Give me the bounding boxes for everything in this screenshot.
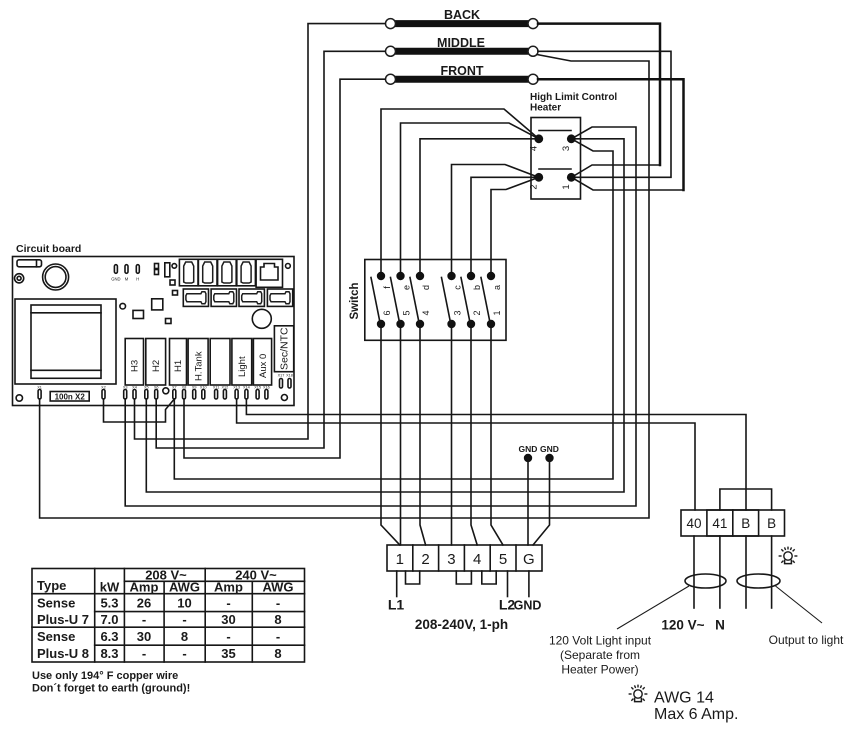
svg-text:2: 2 <box>529 184 540 189</box>
pin X15 <box>254 386 261 400</box>
high limit contact bar 2-1 <box>539 168 571 170</box>
pin X11 <box>213 386 219 400</box>
svg-text:X18: X18 <box>286 374 293 378</box>
test point circle right <box>286 264 291 269</box>
svg-text:26: 26 <box>137 596 151 611</box>
wire MIDDLE right to circuit board X1 <box>40 55 649 519</box>
switch pole d-4 <box>410 272 431 328</box>
high limit pin 4 <box>534 134 543 143</box>
plug connector row <box>183 289 292 306</box>
svg-text:4: 4 <box>529 146 540 151</box>
svg-text:kW: kW <box>100 580 120 595</box>
wire below terminal B2 <box>771 536 773 608</box>
wire L2 lead <box>507 571 509 597</box>
svg-text:M: M <box>125 277 129 282</box>
svg-text:Max 6 Amp.: Max 6 Amp. <box>654 706 738 723</box>
wire BACK right vertical (heavy) <box>538 24 660 165</box>
svg-text:2: 2 <box>421 551 429 568</box>
wire high-limit pin 3 to X3 <box>125 127 636 506</box>
wire below terminal 40 <box>693 536 695 608</box>
svg-text:H3: H3 <box>130 360 141 372</box>
svg-text:4: 4 <box>421 310 431 315</box>
heater MIDDLE right terminal <box>528 46 538 56</box>
high limit pin 1 <box>567 173 576 182</box>
svg-text:B: B <box>767 516 776 531</box>
wire FRONT right to high-limit pin 1 <box>572 177 684 190</box>
Sec/NTC connector <box>274 326 293 372</box>
pin X16 <box>263 386 270 400</box>
svg-text:GND: GND <box>540 444 559 454</box>
svg-text:H1: H1 <box>173 360 184 372</box>
wire GND left to terminal G <box>527 458 529 545</box>
svg-text:X17: X17 <box>278 374 285 378</box>
buzzer <box>43 264 69 290</box>
wire switch 6 to terminal 1 <box>381 324 400 545</box>
jumper terminals 4-5 <box>482 571 496 584</box>
value label 100n X2 <box>50 392 89 402</box>
svg-text:Type: Type <box>37 578 66 593</box>
switch pole b-2 <box>461 272 482 328</box>
svg-text:Light: Light <box>237 356 248 377</box>
pin X7 <box>172 386 177 400</box>
svg-text:H: H <box>136 277 139 282</box>
svg-text:5.3: 5.3 <box>100 596 118 611</box>
pin X14 <box>243 386 250 400</box>
table group divider <box>32 626 305 628</box>
wire below terminal B1 <box>745 536 747 608</box>
svg-text:Output to light: Output to light <box>769 633 844 647</box>
svg-text:-: - <box>182 646 186 661</box>
svg-text:Plus-U 7: Plus-U 7 <box>37 612 89 627</box>
svg-text:GND: GND <box>519 444 538 454</box>
svg-text:35: 35 <box>221 646 235 661</box>
svg-text:1: 1 <box>396 551 404 568</box>
heater FRONT left terminal <box>386 74 396 84</box>
svg-text:Plus-U 8: Plus-U 8 <box>37 646 89 661</box>
wire FRONT right vertical (heavy) <box>538 79 684 190</box>
relay spare <box>210 339 230 386</box>
lamp icon at terminal B <box>779 547 798 564</box>
wire X6 to MIDDLE left <box>156 51 385 448</box>
svg-text:AWG: AWG <box>169 580 200 595</box>
circuit board outline <box>13 257 295 406</box>
terminal block TB1 outline <box>387 545 542 571</box>
heater FRONT right terminal <box>528 74 538 84</box>
svg-text:4: 4 <box>473 551 481 568</box>
relay H2 <box>146 339 166 386</box>
jumper terminals 1-2 <box>406 571 420 584</box>
small part <box>173 291 178 296</box>
pin X8 <box>182 386 187 400</box>
relay H3 <box>125 339 143 386</box>
heater BACK right terminal <box>528 19 538 29</box>
svg-text:Aux 0: Aux 0 <box>258 354 269 378</box>
wire X8 to FRONT left <box>184 79 385 458</box>
svg-text:6.3: 6.3 <box>100 629 118 644</box>
svg-text:-: - <box>276 629 280 644</box>
wire BACK right to high-limit pin 1 <box>572 165 661 177</box>
svg-text:7.0: 7.0 <box>100 612 118 627</box>
svg-text:-: - <box>226 596 230 611</box>
high limit pin 3 <box>567 134 576 143</box>
heater BACK left terminal <box>386 19 396 29</box>
svg-text:-: - <box>276 596 280 611</box>
svg-text:L1: L1 <box>388 597 405 613</box>
switch pole f-6 <box>371 272 392 328</box>
wire switch 1 to terminal 5 <box>491 324 503 545</box>
RJ jack row <box>179 259 255 286</box>
wire switch a to high-limit pin 2 <box>491 177 539 276</box>
svg-text:Circuit board: Circuit board <box>16 243 81 255</box>
svg-text:(Separate from: (Separate from <box>560 648 640 662</box>
wire high-limit pin 3 to X5 <box>146 139 624 492</box>
svg-text:e: e <box>402 285 412 290</box>
mounting hole bottom left <box>16 395 22 401</box>
relay H1 <box>170 339 187 386</box>
switch pole a-1 <box>481 272 502 328</box>
svg-text:Amp: Amp <box>130 580 159 595</box>
wire X13 to terminal 40 <box>237 399 695 510</box>
wire X14 to terminal B <box>246 399 746 510</box>
fuse F1 <box>17 260 42 267</box>
svg-text:B: B <box>741 516 750 531</box>
cable ellipse 120V input <box>685 574 726 588</box>
jumper terminals 41-B2 <box>720 489 772 510</box>
svg-text:H2: H2 <box>151 360 162 372</box>
connector pins GND M H <box>114 265 139 274</box>
wire switch 3 to terminal 3 <box>451 324 453 545</box>
svg-text:6: 6 <box>382 310 392 315</box>
leader line to 120V light input note <box>617 586 689 629</box>
svg-text:1: 1 <box>561 184 572 189</box>
mounting hole mid <box>163 388 169 394</box>
svg-text:8: 8 <box>274 646 281 661</box>
svg-text:-: - <box>142 612 146 627</box>
pin X3 <box>123 386 128 400</box>
wire link X2 to X7 <box>104 399 175 422</box>
svg-text:2: 2 <box>472 310 482 315</box>
leader line to output to light note <box>776 586 823 623</box>
wire below terminal 41 <box>719 536 721 608</box>
small part <box>170 280 175 285</box>
relay coil circle <box>252 309 271 328</box>
svg-text:8: 8 <box>274 612 281 627</box>
svg-text:Use only 194° F copper wire: Use only 194° F copper wire <box>32 670 178 682</box>
svg-text:AWG 14: AWG 14 <box>654 690 714 707</box>
svg-text:8.3: 8.3 <box>100 646 118 661</box>
node GND left dot <box>524 454 532 462</box>
svg-text:H.Tank: H.Tank <box>194 351 205 381</box>
small part <box>166 319 172 324</box>
lamp icon AWG note <box>629 685 648 702</box>
svg-text:GND: GND <box>111 277 120 282</box>
transformer T1 <box>15 299 116 384</box>
wire GND lead <box>528 571 530 597</box>
svg-text:G: G <box>523 551 535 568</box>
wire switch f to high-limit pin 4 <box>381 109 539 276</box>
wire switch 2 to terminal 4 <box>471 324 477 545</box>
pin X13 <box>233 386 240 400</box>
svg-text:a: a <box>492 285 502 290</box>
IC U3 <box>152 299 163 310</box>
svg-text:b: b <box>472 285 482 290</box>
terminal block TB2 outline <box>681 510 785 536</box>
svg-text:-: - <box>226 629 230 644</box>
pin X9 <box>192 386 197 400</box>
wire switch e to high-limit pin 4 <box>401 123 539 276</box>
svg-text:BACK: BACK <box>444 8 480 22</box>
relay Light <box>232 339 252 386</box>
svg-text:41: 41 <box>712 516 727 531</box>
svg-text:100n X2: 100n X2 <box>55 392 86 401</box>
svg-text:1: 1 <box>492 310 502 315</box>
pin X4 <box>132 386 137 400</box>
washer hole <box>15 274 24 283</box>
cable ellipse light output <box>737 574 780 588</box>
svg-text:30: 30 <box>221 612 235 627</box>
capacitor C1 <box>165 263 170 277</box>
high limit control heater box U2 <box>531 118 581 200</box>
hole circle mid <box>120 303 126 309</box>
svg-text:5: 5 <box>402 310 412 315</box>
svg-text:3: 3 <box>561 146 572 151</box>
svg-text:Heater: Heater <box>530 103 561 114</box>
RJ45 jack <box>256 259 282 287</box>
relay Aux 0 <box>253 339 271 386</box>
svg-text:120 Volt Light input: 120 Volt Light input <box>549 634 652 648</box>
jumper terminals 3-4 <box>456 571 471 584</box>
pin X2 <box>101 386 106 400</box>
wire switch d to high-limit pin 4 <box>420 139 539 276</box>
svg-text:120 V~: 120 V~ <box>661 618 704 633</box>
pin X5 <box>144 386 149 400</box>
table outline <box>32 569 305 663</box>
wire X4 to BACK left <box>135 24 386 439</box>
wire L1 lead <box>396 571 398 597</box>
pin X10 <box>200 386 207 400</box>
svg-text:Sec/NTC: Sec/NTC <box>279 327 291 370</box>
heater element FRONT bar <box>392 76 532 83</box>
svg-text:30: 30 <box>137 629 151 644</box>
pin X12 <box>222 386 229 400</box>
svg-text:Sense: Sense <box>37 596 75 611</box>
wire switch 4 to terminal 2 <box>420 324 426 545</box>
svg-text:d: d <box>421 285 431 290</box>
svg-text:8: 8 <box>181 629 188 644</box>
svg-text:10: 10 <box>177 596 191 611</box>
node GND right dot <box>545 454 553 462</box>
relay H.Tank <box>188 339 208 386</box>
heater element BACK bar <box>392 20 532 27</box>
high limit pin 2 <box>534 173 543 182</box>
wire high-limit pin 3 to X7 <box>174 139 613 479</box>
svg-text:AWG: AWG <box>262 580 293 595</box>
pin X1 <box>37 386 42 400</box>
svg-text:-: - <box>142 646 146 661</box>
wire switch b to high-limit pin 2 <box>471 177 539 276</box>
IC U4 <box>133 310 144 318</box>
svg-text:GND: GND <box>514 599 542 613</box>
svg-text:Switch: Switch <box>349 282 361 319</box>
table grid <box>32 569 305 663</box>
svg-text:208-240V, 1-ph: 208-240V, 1-ph <box>415 617 508 632</box>
wire GND right to terminal G <box>533 458 550 545</box>
svg-text:N: N <box>715 618 725 633</box>
switch box S1 <box>365 260 506 341</box>
test point circle <box>172 264 177 269</box>
switch pole e-5 <box>391 272 412 328</box>
pin X6 <box>154 386 159 400</box>
svg-text:c: c <box>453 285 463 290</box>
switch pole c-3 <box>442 272 463 328</box>
svg-text:Don´t forget to earth (ground): Don´t forget to earth (ground)! <box>32 683 190 695</box>
svg-text:3: 3 <box>453 310 463 315</box>
wire switch c to high-limit pin 2 <box>452 165 539 277</box>
svg-text:-: - <box>182 612 186 627</box>
wire MIDDLE right to high-limit pin 1 <box>538 51 671 177</box>
wire switch 5 to terminal 1 <box>400 324 402 545</box>
svg-text:5: 5 <box>499 551 507 568</box>
jumper header <box>155 264 159 275</box>
heater MIDDLE left terminal <box>386 46 396 56</box>
svg-text:Sense: Sense <box>37 629 75 644</box>
svg-text:40: 40 <box>686 516 701 531</box>
high limit contact bar 4-3 <box>539 130 571 132</box>
svg-text:Amp: Amp <box>214 580 243 595</box>
svg-text:3: 3 <box>447 551 455 568</box>
svg-text:High Limit Control: High Limit Control <box>530 92 617 103</box>
svg-text:Heater Power): Heater Power) <box>561 663 638 677</box>
mounting hole right <box>281 395 287 401</box>
heater element MIDDLE bar <box>392 48 532 55</box>
